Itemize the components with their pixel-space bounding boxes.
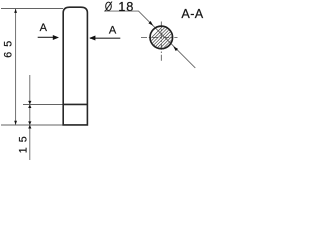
- svg-text:15: 15: [18, 131, 30, 153]
- svg-text:A: A: [40, 22, 48, 34]
- svg-text:A: A: [109, 24, 117, 36]
- svg-text:18: 18: [118, 0, 134, 14]
- svg-text:A-A: A-A: [181, 7, 203, 21]
- svg-text:65: 65: [3, 36, 15, 58]
